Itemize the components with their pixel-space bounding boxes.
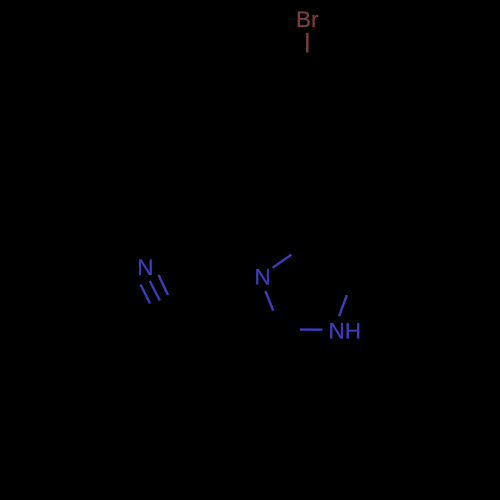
bond N1-C5 (half near N1) <box>339 295 347 316</box>
bond C2-N1 (half near N1) <box>300 328 323 331</box>
nitrile triple bond line 3 <box>159 275 169 295</box>
bond N3-C2 (half near N3) <box>265 291 273 311</box>
svg-text:N: N <box>255 265 271 290</box>
bond C-Br (half near Br) <box>306 33 308 52</box>
svg-text:NH: NH <box>329 319 362 344</box>
nitrile triple bond line 1 <box>141 285 151 304</box>
nitrile triple bond line 2 <box>150 281 160 301</box>
svg-text:N: N <box>137 255 153 280</box>
svg-text:Br: Br <box>296 7 319 32</box>
bond N3-C4 (half near N3) <box>273 255 292 268</box>
